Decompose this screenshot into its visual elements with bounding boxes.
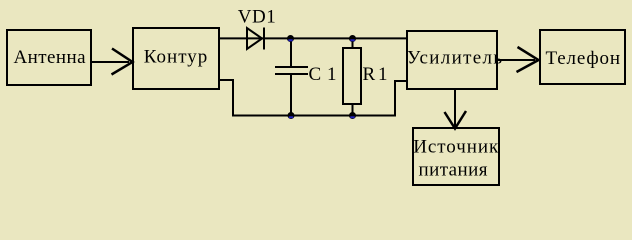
- svg-text:питания: питания: [419, 160, 488, 181]
- svg-text:Усилитель: Усилитель: [407, 48, 502, 69]
- svg-text:VD1: VD1: [238, 7, 276, 28]
- arrow from Антенна to Контур: [92, 49, 133, 75]
- diode VD1: [247, 28, 264, 50]
- node B (junction above R1): [349, 35, 356, 42]
- resistor R1: [343, 48, 361, 104]
- svg-text:R1: R1: [363, 64, 388, 85]
- wire from Контур to Усилитель (top rail through VD1): [218, 37, 407, 39]
- node D (junction below R1): [349, 112, 356, 119]
- block Усилитель: [407, 31, 502, 89]
- node C (junction below C1): [288, 112, 295, 119]
- wire bottom rail: [232, 115, 396, 117]
- arrow from Усилитель down to Источник питания: [445, 90, 467, 129]
- capacitor C1: [275, 67, 308, 74]
- node A (junction above C1): [287, 35, 294, 42]
- wire into Усилитель left edge: [394, 80, 407, 82]
- wire down from Контур exit to bottom rail: [232, 79, 234, 116]
- wire from node A down to C1: [290, 39, 292, 66]
- svg-text:Источник: Источник: [413, 137, 499, 158]
- wire up from bottom rail to Усилитель: [394, 80, 396, 116]
- wire from Контур right edge (bottom exit): [219, 79, 234, 81]
- svg-text:Контур: Контур: [144, 47, 208, 68]
- block Контур: [133, 28, 219, 89]
- block Телефон: [540, 30, 625, 84]
- block Источник питания: [413, 128, 499, 185]
- svg-text:Антенна: Антенна: [14, 47, 87, 68]
- wire from node B down to R1: [352, 39, 354, 48]
- arrow from Усилитель to Телефон: [498, 47, 539, 72]
- block Антенна: [7, 30, 91, 85]
- svg-text:Телефон: Телефон: [546, 48, 621, 69]
- wire from R1 down to bottom rail: [352, 104, 354, 114]
- wire from C1 down to bottom rail: [290, 75, 292, 114]
